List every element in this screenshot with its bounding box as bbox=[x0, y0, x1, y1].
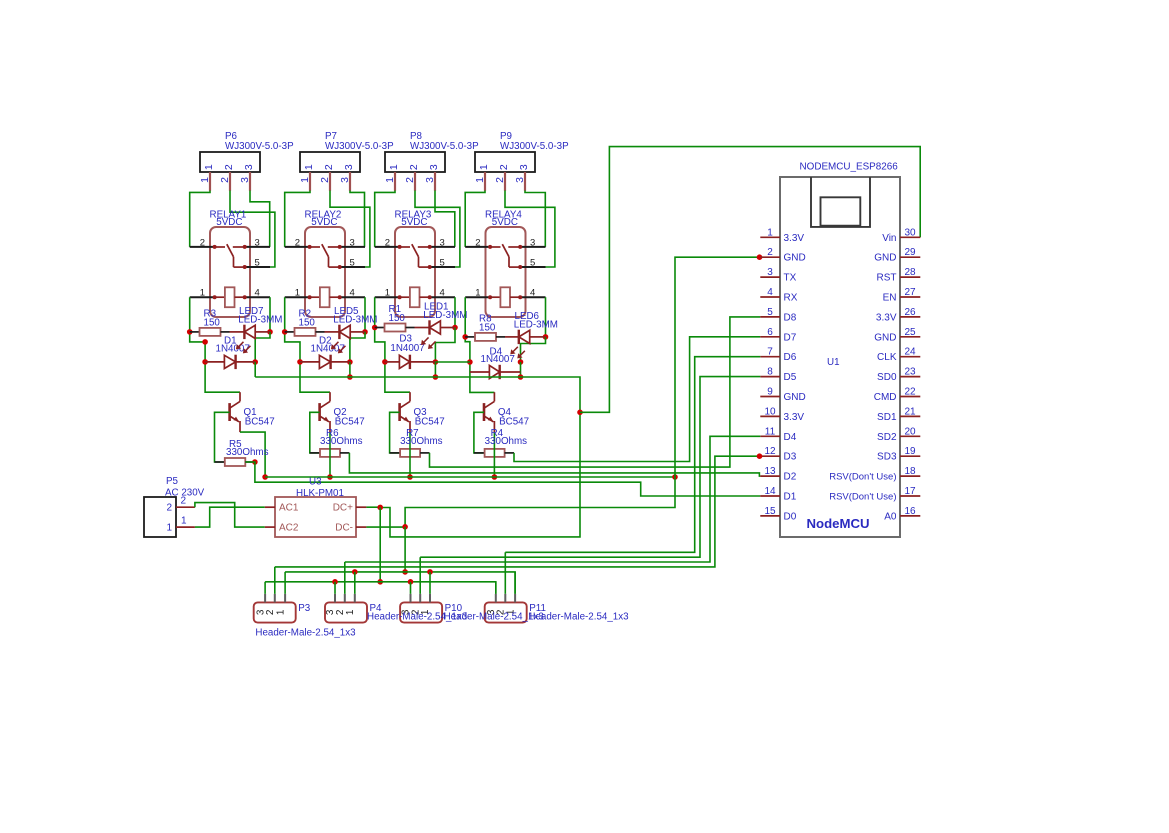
pin 3 of P7 bbox=[339, 172, 351, 191]
svg-text:GND: GND bbox=[784, 392, 806, 403]
svg-text:2: 2 bbox=[767, 247, 773, 258]
pin 5 of U1 bbox=[760, 307, 796, 324]
pin 20 of U1 bbox=[877, 426, 920, 443]
svg-text:3.3V: 3.3V bbox=[876, 312, 897, 323]
junction at LED1 right bbox=[452, 325, 458, 331]
svg-text:25: 25 bbox=[904, 327, 916, 338]
wire P6.2 to RELAY1.5 bbox=[230, 191, 275, 268]
wire R4 to D7 bbox=[514, 337, 760, 462]
pin 5 of RELAY2 bbox=[338, 257, 365, 269]
svg-text:3: 3 bbox=[424, 177, 436, 183]
wire Q2 emitter to GND rail bbox=[329, 432, 331, 477]
wire P11.1 up to rail bbox=[514, 572, 516, 594]
pin 3 of RELAY2 bbox=[338, 237, 365, 249]
svg-text:D7: D7 bbox=[784, 332, 797, 343]
label Q1 bbox=[244, 407, 275, 428]
junction GND rail to NodeMCU bbox=[672, 474, 678, 480]
pin 2 of RELAY3 bbox=[375, 237, 402, 249]
label P4 bbox=[370, 603, 383, 614]
svg-text:5: 5 bbox=[767, 307, 773, 318]
pin 1 of U1 bbox=[760, 227, 804, 244]
svg-text:150: 150 bbox=[479, 323, 496, 334]
svg-text:28: 28 bbox=[904, 267, 916, 278]
pin 1 of P7 bbox=[299, 172, 311, 191]
pin 1 of RELAY2 bbox=[285, 288, 312, 300]
LED LED6 bbox=[519, 330, 546, 344]
relay switch contacts RELAY3 bbox=[400, 244, 430, 267]
relay RELAY4 bbox=[486, 227, 526, 317]
svg-text:2: 2 bbox=[323, 164, 335, 170]
LED arrows LED6 bbox=[510, 347, 525, 359]
LED LED1 bbox=[430, 320, 456, 334]
wire Q1 base to R5 bbox=[215, 412, 230, 462]
transistor Q3 BC547 bbox=[400, 392, 410, 432]
svg-text:6: 6 bbox=[767, 327, 773, 338]
pin 1 of P9 bbox=[474, 172, 486, 191]
svg-text:1: 1 bbox=[345, 609, 356, 615]
junction on 5V rail bbox=[347, 374, 353, 380]
resistor R2 150 bbox=[285, 328, 340, 336]
label P7 bbox=[325, 131, 337, 142]
svg-text:5: 5 bbox=[350, 257, 355, 268]
svg-text:3: 3 bbox=[350, 237, 355, 248]
label P4 value bbox=[367, 612, 468, 623]
svg-text:BC547: BC547 bbox=[499, 417, 529, 428]
wire P10.3 up to rail bbox=[410, 582, 412, 594]
pin 4 of U1 bbox=[760, 287, 797, 304]
svg-text:D1: D1 bbox=[784, 492, 797, 503]
junction at D2 cathode bbox=[347, 359, 353, 365]
label D4 bbox=[481, 346, 515, 365]
wire P7.1 to RELAY2.2 bbox=[285, 191, 310, 247]
svg-text:10: 10 bbox=[764, 406, 776, 417]
IC U3 HLK-PM01 bbox=[275, 497, 356, 537]
pin 3 of RELAY1 bbox=[243, 237, 270, 249]
label RELAY4 bbox=[485, 210, 522, 229]
svg-text:NodeMCU: NodeMCU bbox=[806, 516, 869, 531]
junction at LED7 right bbox=[267, 329, 273, 335]
pin 26 of U1 bbox=[876, 307, 920, 324]
pin 3 of P9 bbox=[514, 172, 526, 191]
svg-text:3: 3 bbox=[530, 237, 535, 248]
junction at D2 anode bbox=[297, 359, 303, 365]
resistor R1 150 bbox=[375, 324, 430, 332]
junction at R3 left bbox=[187, 329, 193, 335]
wire R5 to D1 rail bbox=[245, 462, 760, 496]
wire P11.3 up to rail bbox=[495, 582, 497, 594]
svg-text:16: 16 bbox=[904, 506, 916, 517]
svg-text:2: 2 bbox=[181, 496, 187, 507]
pin 7 of U1 bbox=[760, 347, 796, 364]
resistor R7 330Ohms bbox=[390, 449, 430, 457]
junction DC- bbox=[402, 524, 408, 530]
svg-text:1: 1 bbox=[475, 288, 480, 299]
pin 2 of U1 bbox=[760, 247, 805, 264]
svg-text:3: 3 bbox=[440, 237, 445, 248]
svg-text:3: 3 bbox=[243, 164, 255, 170]
pin 17 of U1 bbox=[829, 486, 920, 503]
svg-text:30: 30 bbox=[904, 227, 916, 238]
svg-text:3: 3 bbox=[767, 267, 773, 278]
svg-text:24: 24 bbox=[904, 347, 916, 358]
pins of P4 bbox=[335, 594, 355, 603]
junction at R8 left bbox=[462, 334, 468, 340]
transistor Q2 BC547 bbox=[320, 392, 330, 432]
label LED5 bbox=[333, 306, 377, 325]
transistor Q1 BC547 bbox=[230, 392, 240, 432]
pin 1 of RELAY1 bbox=[190, 288, 217, 300]
svg-text:3: 3 bbox=[514, 177, 526, 183]
svg-text:22: 22 bbox=[904, 387, 916, 398]
pin 30 of U1 bbox=[882, 227, 920, 244]
label P6 value bbox=[225, 141, 294, 152]
svg-text:1: 1 bbox=[181, 516, 187, 527]
wire P3.2 up to D3 rail bbox=[274, 567, 276, 594]
wire D1 cathode to 5V rail bbox=[254, 362, 256, 377]
svg-text:19: 19 bbox=[904, 446, 916, 457]
svg-text:CMD: CMD bbox=[874, 392, 897, 403]
pin AC1 of U3 bbox=[265, 503, 299, 514]
junction at R2 left bbox=[282, 329, 288, 335]
pin 10 of U1 bbox=[760, 406, 804, 423]
junction at LED5 right bbox=[362, 329, 368, 335]
relay RELAY2 bbox=[305, 227, 345, 317]
wire 5V rail bbox=[255, 377, 580, 537]
wire GND rail bbox=[265, 476, 675, 478]
svg-text:P5: P5 bbox=[166, 476, 179, 487]
wire header rail pin1 (DC-) bbox=[285, 572, 515, 594]
svg-text:3: 3 bbox=[339, 177, 351, 183]
connector P7 bbox=[300, 152, 360, 172]
IC U1 NODEMCU_ESP8266 bbox=[780, 177, 900, 537]
junction P10.3 bbox=[408, 579, 414, 585]
junction at D1 cathode bbox=[252, 359, 258, 365]
svg-text:150: 150 bbox=[299, 318, 316, 329]
junction Q3 emitter on GND rail bbox=[407, 474, 413, 480]
svg-text:1: 1 bbox=[203, 164, 215, 170]
LED LED5 bbox=[339, 325, 365, 339]
svg-text:2: 2 bbox=[494, 177, 506, 183]
svg-text:P3: P3 bbox=[298, 603, 311, 614]
svg-text:SD3: SD3 bbox=[877, 452, 897, 463]
wire LED7 to D1 cathode bbox=[255, 332, 270, 362]
svg-text:1: 1 bbox=[299, 177, 311, 183]
svg-text:2: 2 bbox=[219, 177, 231, 183]
relay coil RELAY3 bbox=[400, 287, 430, 307]
pin 23 of U1 bbox=[877, 367, 920, 384]
label D2 bbox=[311, 336, 345, 355]
pin 2 of RELAY2 bbox=[285, 237, 312, 249]
label R5 bbox=[226, 439, 269, 458]
wire P4.1 up to rail bbox=[354, 572, 356, 594]
svg-text:21: 21 bbox=[904, 406, 916, 417]
svg-text:2: 2 bbox=[404, 177, 416, 183]
svg-text:1: 1 bbox=[385, 288, 390, 299]
resistor R6 330Ohms bbox=[310, 449, 350, 457]
svg-text:RX: RX bbox=[784, 293, 798, 304]
label D3 bbox=[390, 334, 424, 355]
wire Q4 base to R4 bbox=[474, 412, 485, 453]
wire P3.3 up to rail bbox=[264, 582, 266, 594]
wire LED5 to D2 cathode bbox=[350, 332, 365, 362]
svg-text:LED-3MM: LED-3MM bbox=[514, 319, 558, 330]
label RELAY3 bbox=[395, 210, 432, 229]
wire Q3 base to R7 bbox=[390, 412, 401, 453]
label P3 bbox=[298, 603, 311, 614]
pin AC2 of U3 bbox=[265, 523, 299, 534]
svg-text:9: 9 bbox=[767, 387, 773, 398]
svg-text:23: 23 bbox=[904, 367, 916, 378]
svg-text:5: 5 bbox=[530, 257, 535, 268]
resistor R5 330Ohms bbox=[215, 458, 255, 466]
label D1 bbox=[216, 336, 250, 355]
wire DC+ node bbox=[366, 506, 380, 508]
pin 29 of U1 bbox=[874, 247, 920, 264]
wire R7 to D8 bbox=[430, 317, 761, 467]
wire D3 pin12 to P3.2 bbox=[275, 456, 760, 567]
pin 27 of U1 bbox=[883, 287, 921, 304]
svg-text:BC547: BC547 bbox=[335, 417, 365, 428]
label LED6 bbox=[514, 311, 558, 330]
wire P8.1 to RELAY3.2 bbox=[375, 191, 395, 247]
wire LED1 to D3 cathode bbox=[435, 328, 455, 363]
svg-text:150: 150 bbox=[204, 318, 221, 329]
svg-text:7: 7 bbox=[767, 347, 773, 358]
wire D6 pin7 to P11.2 bbox=[505, 357, 760, 553]
junction on 5V rail bbox=[518, 374, 524, 380]
resistor R3 150 bbox=[190, 328, 245, 336]
pin 2 of P5 bbox=[176, 496, 195, 508]
svg-text:1: 1 bbox=[767, 227, 773, 238]
wire DC- node bbox=[366, 526, 405, 528]
svg-text:NODEMCU_ESP8266: NODEMCU_ESP8266 bbox=[800, 162, 899, 173]
wire D2 cathode to 5V rail bbox=[349, 362, 351, 377]
diode D1 1N4007 bbox=[205, 355, 255, 369]
svg-text:Vin: Vin bbox=[882, 233, 896, 244]
relay switch contacts RELAY1 bbox=[215, 244, 245, 267]
wire D5 pin8 to P10.2 bbox=[420, 377, 760, 558]
wire P8.2 to RELAY3.5 bbox=[415, 191, 460, 268]
svg-text:DC-: DC- bbox=[335, 523, 353, 534]
diode D2 1N4007 bbox=[300, 355, 350, 369]
svg-text:GND: GND bbox=[874, 253, 896, 264]
junction NodeMCU pin2 bbox=[757, 254, 763, 260]
LED arrows LED1 bbox=[421, 337, 436, 349]
header P4 bbox=[325, 602, 367, 622]
junction at LED6 right bbox=[543, 334, 549, 340]
junction Q4 emitter on GND rail bbox=[492, 474, 498, 480]
svg-text:1: 1 bbox=[474, 177, 486, 183]
pin DC+ of U3 bbox=[333, 503, 367, 514]
svg-text:3.3V: 3.3V bbox=[784, 233, 805, 244]
svg-text:15: 15 bbox=[764, 506, 776, 517]
svg-text:LED-3MM: LED-3MM bbox=[238, 314, 282, 325]
pin 2 of P6 bbox=[219, 172, 231, 191]
svg-text:Header-Male-2.54_1x3: Header-Male-2.54_1x3 bbox=[528, 612, 629, 623]
wire RELAY4.4 to LED6 bbox=[545, 297, 547, 337]
svg-text:1: 1 bbox=[384, 177, 396, 183]
wire P6.3 to RELAY1.3 bbox=[250, 191, 270, 247]
label R2 bbox=[299, 309, 316, 329]
svg-text:D6: D6 bbox=[784, 352, 797, 363]
junction node col1 bbox=[202, 339, 208, 345]
junction P4.1 bbox=[352, 569, 358, 575]
svg-text:DC+: DC+ bbox=[333, 503, 353, 514]
svg-text:3.3V: 3.3V bbox=[784, 412, 805, 423]
svg-text:1: 1 bbox=[478, 164, 490, 170]
wire P9.1 to RELAY4.2 bbox=[465, 191, 485, 247]
svg-text:A0: A0 bbox=[884, 511, 897, 522]
svg-text:TX: TX bbox=[784, 273, 797, 284]
pin 3 of U1 bbox=[760, 267, 796, 284]
label P11 value bbox=[528, 612, 629, 623]
svg-text:29: 29 bbox=[904, 247, 916, 258]
svg-text:26: 26 bbox=[904, 307, 916, 318]
pin 24 of U1 bbox=[877, 347, 920, 364]
svg-text:17: 17 bbox=[904, 486, 916, 497]
svg-text:2: 2 bbox=[223, 164, 235, 170]
wire RELAY3.4 to LED1 bbox=[454, 297, 456, 327]
svg-text:CLK: CLK bbox=[877, 352, 897, 363]
label R6 bbox=[320, 428, 363, 447]
svg-text:4: 4 bbox=[767, 287, 773, 298]
svg-text:3: 3 bbox=[255, 237, 260, 248]
svg-text:D2: D2 bbox=[784, 472, 797, 483]
LED arrows LED5 bbox=[331, 342, 346, 354]
relay RELAY3 bbox=[395, 227, 435, 317]
wire DC+ down to header rail bbox=[379, 507, 381, 581]
relay RELAY1 bbox=[210, 227, 250, 317]
svg-text:3: 3 bbox=[239, 177, 251, 183]
wire P7.3 to RELAY2.3 bbox=[350, 191, 365, 247]
pin 2 of P7 bbox=[319, 172, 331, 191]
pin 1 of P5 bbox=[176, 516, 195, 528]
junction 5V/Vin node bbox=[577, 410, 583, 416]
pins of P11 bbox=[496, 594, 515, 603]
pin DC- of U3 bbox=[335, 523, 366, 534]
junction Q1 emitter on GND rail bbox=[262, 474, 268, 480]
label R1 bbox=[389, 304, 406, 324]
junction at D1 anode bbox=[202, 359, 208, 365]
relay coil RELAY2 bbox=[310, 287, 340, 307]
header P10 bbox=[400, 602, 442, 622]
label R8 bbox=[479, 314, 496, 334]
svg-text:5VDC: 5VDC bbox=[311, 217, 337, 228]
wire RELAY1.1 to R3 and D1 bbox=[190, 297, 240, 392]
svg-text:WJ300V-5.0-3P: WJ300V-5.0-3P bbox=[325, 141, 394, 152]
label P10 value bbox=[444, 612, 545, 623]
resistor R8 150 bbox=[465, 333, 519, 341]
wire P6.1 to RELAY1.2 bbox=[190, 191, 210, 247]
svg-text:2: 2 bbox=[475, 237, 480, 248]
svg-text:3: 3 bbox=[518, 164, 530, 170]
junction NodeMCU pin12 bbox=[757, 453, 763, 459]
pin 8 of U1 bbox=[760, 367, 796, 384]
svg-text:330Ohms: 330Ohms bbox=[485, 436, 528, 447]
wire R6 to D2 bbox=[349, 453, 760, 476]
wire RELAY2.1 to R2 and D2 bbox=[285, 297, 330, 392]
svg-text:150: 150 bbox=[389, 313, 406, 324]
svg-text:D0: D0 bbox=[784, 511, 797, 522]
wire RELAY2.4 to LED5 bbox=[364, 297, 366, 332]
svg-text:D4: D4 bbox=[784, 432, 797, 443]
svg-text:330Ohms: 330Ohms bbox=[320, 436, 363, 447]
label P8 bbox=[410, 131, 423, 142]
junction R5 right bbox=[252, 459, 258, 465]
wire RELAY4.1 to R8 and D4 bbox=[465, 297, 494, 392]
svg-text:WJ300V-5.0-3P: WJ300V-5.0-3P bbox=[500, 141, 569, 152]
LED LED7 bbox=[244, 325, 270, 339]
pin 13 of U1 bbox=[760, 466, 796, 483]
svg-text:1: 1 bbox=[200, 288, 205, 299]
svg-text:GND: GND bbox=[874, 332, 896, 343]
svg-text:1: 1 bbox=[388, 164, 400, 170]
pin 5 of RELAY4 bbox=[518, 257, 545, 269]
pin 1 of P8 bbox=[384, 172, 396, 191]
pin 12 of U1 bbox=[760, 446, 796, 463]
junction at D4 anode bbox=[467, 359, 473, 365]
svg-text:SD2: SD2 bbox=[877, 432, 897, 443]
pin 18 of U1 bbox=[829, 466, 920, 483]
relay switch contacts RELAY4 bbox=[490, 244, 520, 267]
pin 28 of U1 bbox=[877, 267, 921, 284]
label U3 bbox=[296, 477, 344, 500]
label U1 bbox=[827, 357, 840, 368]
pin 2 of P8 bbox=[404, 172, 416, 191]
junction DC- on bottom rail bbox=[402, 569, 408, 575]
pin 5 of RELAY3 bbox=[428, 257, 455, 269]
wire P5.1 to AC1 bbox=[195, 507, 265, 527]
diode D3 1N4007 bbox=[385, 355, 436, 369]
relay coil RELAY4 bbox=[490, 287, 520, 307]
junction at D4 cathode bbox=[518, 359, 524, 365]
diode D4 1N4007 bbox=[470, 365, 521, 379]
svg-text:2: 2 bbox=[408, 164, 420, 170]
header P3 bbox=[254, 602, 296, 622]
wire P5.2 to AC2 bbox=[195, 503, 265, 527]
svg-text:2: 2 bbox=[295, 237, 300, 248]
pins of P3 bbox=[265, 594, 285, 603]
pin 22 of U1 bbox=[874, 387, 921, 404]
svg-text:2: 2 bbox=[498, 164, 510, 170]
wire Q4 emitter to GND rail bbox=[493, 432, 495, 477]
svg-text:1: 1 bbox=[199, 177, 211, 183]
pin 9 of U1 bbox=[760, 387, 805, 404]
svg-text:D8: D8 bbox=[784, 312, 797, 323]
svg-text:RSV(Don't Use): RSV(Don't Use) bbox=[829, 472, 896, 483]
NodeMCU usb outline bbox=[811, 177, 870, 227]
wire P7.2 to RELAY2.5 bbox=[330, 191, 370, 268]
svg-text:1: 1 bbox=[303, 164, 315, 170]
svg-text:2: 2 bbox=[166, 503, 172, 514]
label NODEMCU_ESP8266 bbox=[800, 162, 899, 173]
pin 3 of RELAY3 bbox=[428, 237, 455, 249]
pin 1 of P6 bbox=[199, 172, 211, 191]
label P7 value bbox=[325, 141, 394, 152]
pin 4 of RELAY3 bbox=[428, 288, 455, 300]
relay coil RELAY1 bbox=[215, 287, 245, 307]
wire D4 pin11 to P4.2 bbox=[345, 436, 761, 562]
label Q3 bbox=[414, 407, 445, 428]
svg-text:LED-3MM: LED-3MM bbox=[423, 310, 467, 321]
svg-text:1: 1 bbox=[166, 523, 172, 534]
junction Q2 emitter on GND rail bbox=[327, 474, 333, 480]
junction DC+ bbox=[377, 505, 383, 511]
svg-text:RSV(Don't Use): RSV(Don't Use) bbox=[829, 492, 896, 503]
wire GND to NodeMCU pin2 bbox=[405, 257, 760, 526]
transistor Q4 BC547 bbox=[484, 392, 494, 432]
junction P10.1 bbox=[427, 569, 433, 575]
